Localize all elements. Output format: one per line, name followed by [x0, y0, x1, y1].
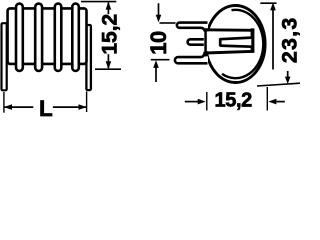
dimension 23,3 extension line top: [260, 2, 276, 4]
flange 3: [55, 4, 62, 71]
dimension L extension line right: [86, 92, 88, 113]
dimension L dimension line and arrows: [4, 104, 87, 110]
dimension L extension line left: [3, 92, 5, 113]
dimension 15,2 (left view) dimension line and arrows: [106, 2, 112, 70]
pin 2 (middle): [188, 39, 204, 44]
svg-text:23,3: 23,3: [278, 16, 300, 63]
coil body (side view): [8, 8, 87, 64]
dimension 15,2 (end view) line and arrows (outside): [185, 99, 285, 105]
svg-text:L: L: [39, 96, 53, 120]
flange 4: [72, 4, 79, 71]
flange 2: [35, 4, 42, 71]
dimension 10 extension line bottom: [151, 59, 170, 61]
flange 1: [16, 4, 23, 71]
winding slot right spine: [251, 28, 255, 52]
core left flat edge: [204, 27, 207, 57]
dimension 15,2 (end view width) extension line left: [206, 92, 208, 111]
tongue (center rib in slot): [220, 38, 252, 47]
core inner outline (end view, right portion): [222, 10, 263, 78]
core outer outline (end view oval): [206, 6, 265, 83]
dimension 15,2 (left view height) extension line bottom: [95, 68, 121, 70]
dimension 10 extension line top: [160, 22, 176, 24]
winding slot top edge: [206, 28, 255, 31]
left lead (bent-down wire, left end): [2, 23, 7, 90]
dimension 23,3 extension line bottom: [257, 83, 300, 86]
svg-text:15,2: 15,2: [215, 89, 253, 111]
dimension 15,2 (end view width) extension line right: [266, 87, 268, 111]
svg-text:10: 10: [146, 31, 171, 55]
dimension 23,3 line and arrows: [270, 2, 290, 84]
right lead (bent-down wire, right end): [86, 25, 91, 90]
winding slot bottom edge: [206, 51, 255, 53]
pin 1 (top): [177, 23, 208, 32]
pin 3 (bottom): [175, 52, 208, 64]
winding slot interior: [207, 31, 251, 51]
dimension 15,2 (left view height) extension line top: [81, 1, 116, 3]
dimension 10 line and arrows (outside): [153, 3, 161, 82]
svg-text:15,2: 15,2: [99, 14, 122, 55]
